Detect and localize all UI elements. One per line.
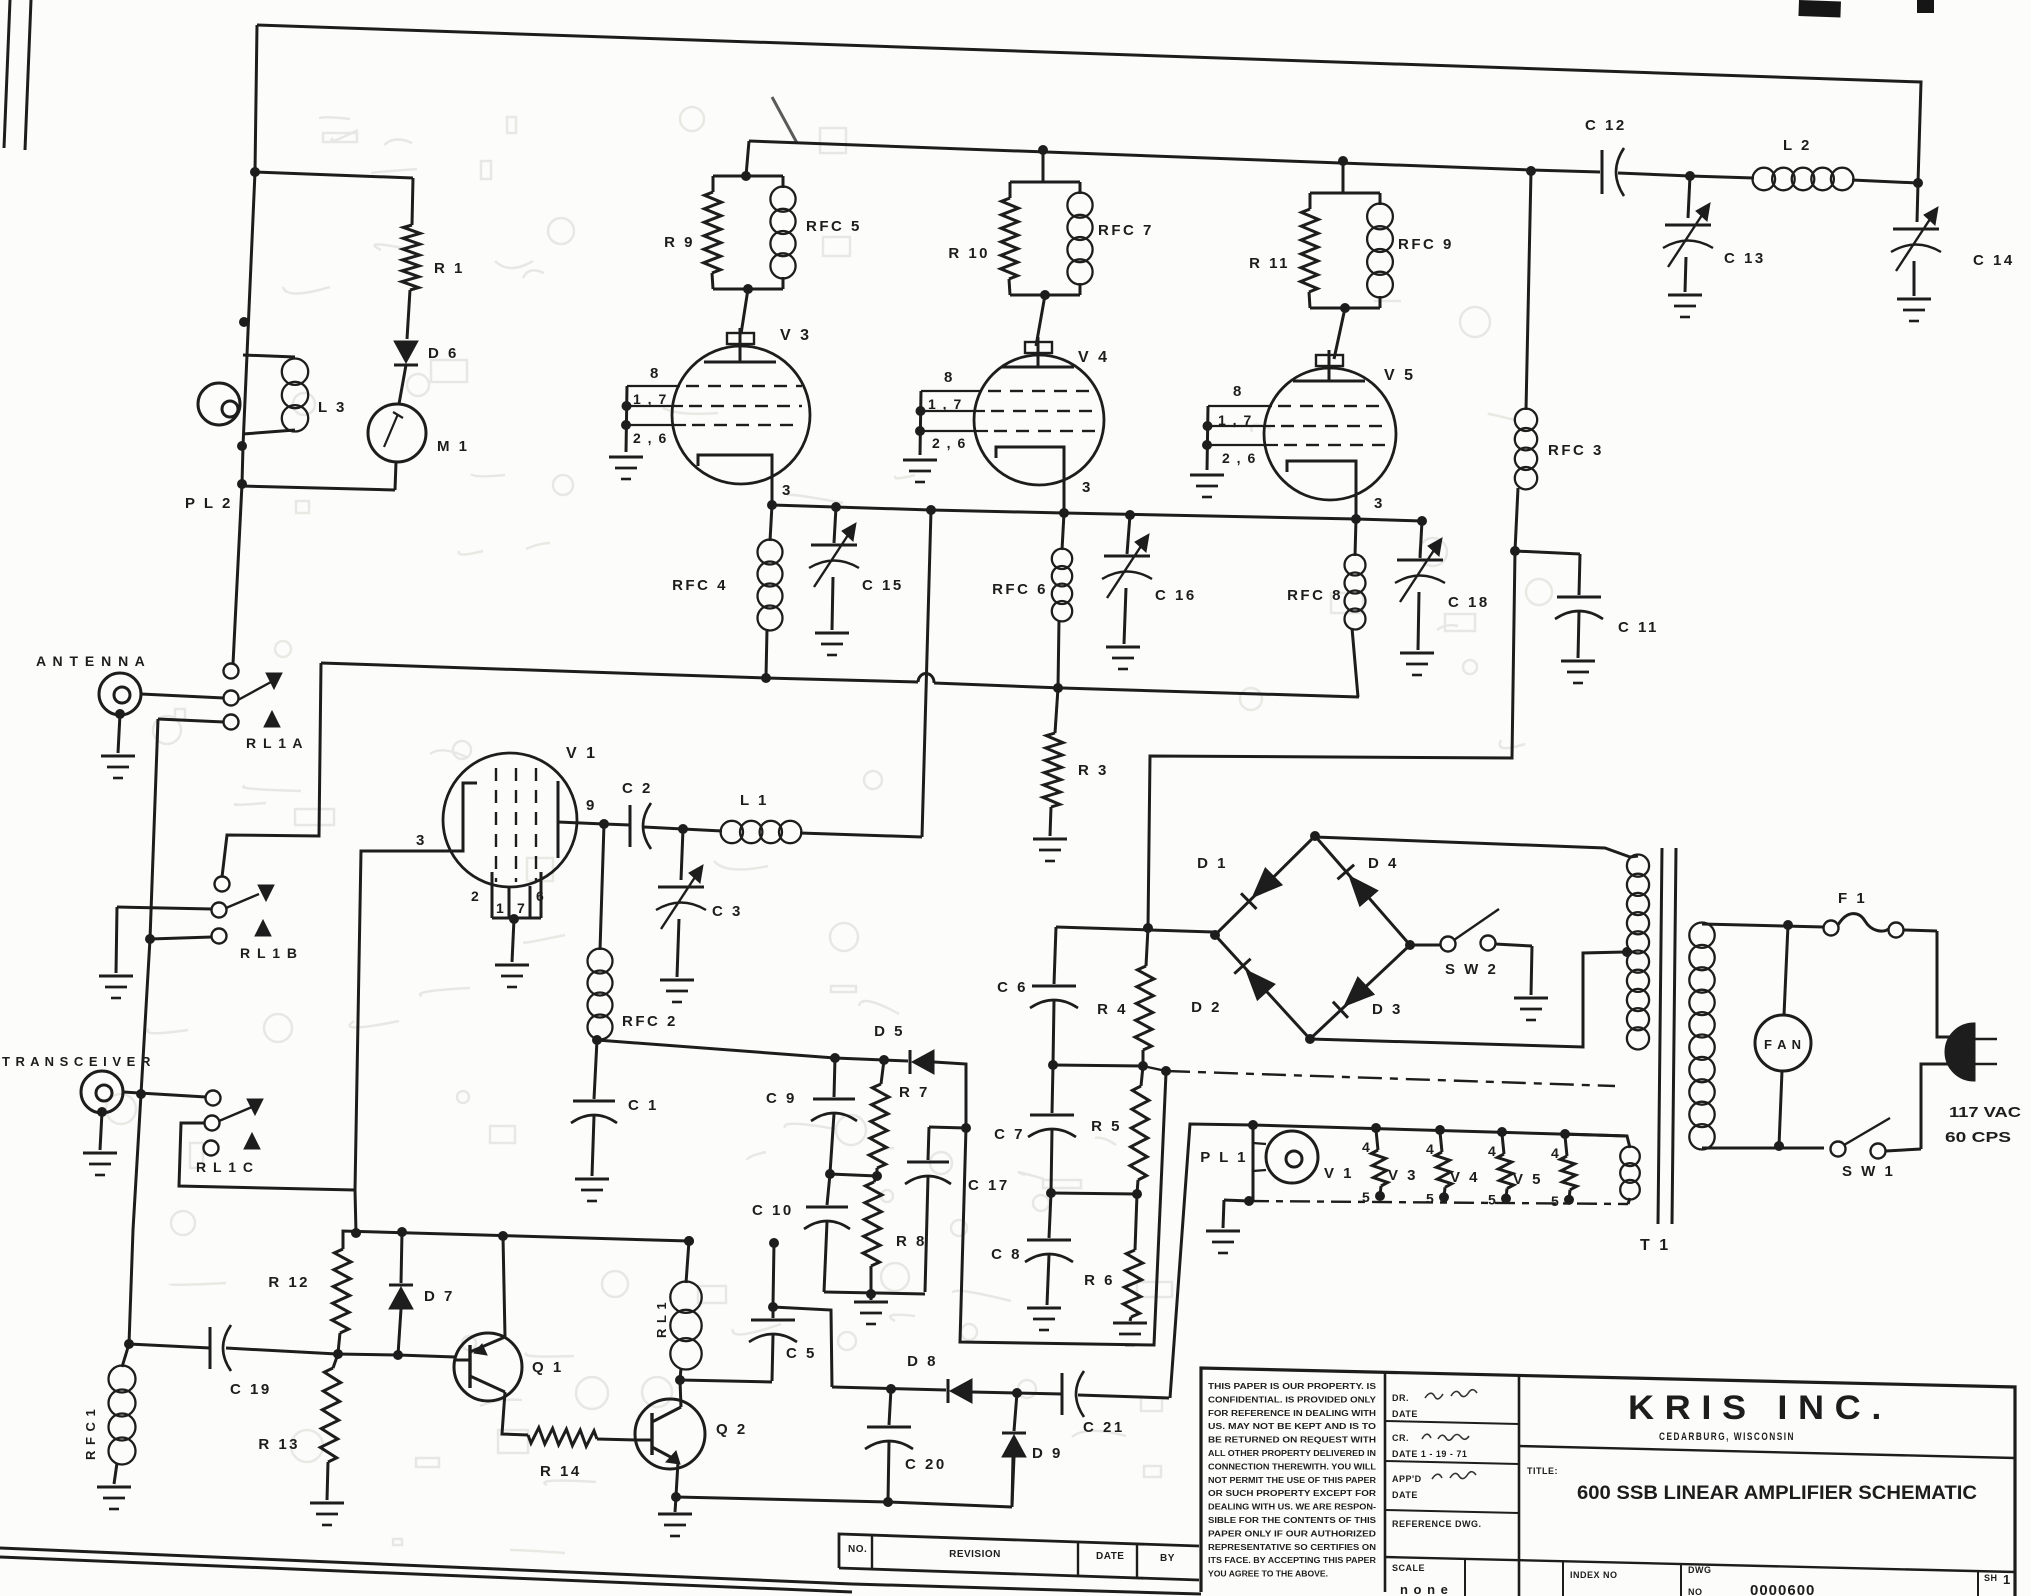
svg-text:3: 3: [782, 482, 793, 499]
table revision strip: [839, 1534, 1199, 1568]
table confidential text box: [1384, 1372, 1387, 1592]
capacitor C15 variable: [834, 507, 836, 543]
resistor R9: [713, 175, 783, 178]
capacitor C7: [1052, 1065, 1053, 1113]
svg-text:DATE 1 - 19 - 71: DATE 1 - 19 - 71: [1392, 1449, 1467, 1459]
svg-text:V 3: V 3: [780, 327, 812, 344]
svg-text:A N T E N N A: A N T E N N A: [36, 653, 146, 669]
resistor R12: [332, 1249, 351, 1333]
svg-text:V 4: V 4: [1450, 1169, 1480, 1186]
wire V4 plate drop: [1038, 145, 1048, 155]
transformer T1 heater winding: [1565, 1134, 1630, 1148]
svg-text:L 1: L 1: [740, 792, 769, 809]
inductor RFC1: [122, 1344, 129, 1367]
svg-text:R 8: R 8: [896, 1233, 927, 1250]
svg-text:RFC 8: RFC 8: [1287, 587, 1343, 604]
wire C9-R7 junction: [830, 1174, 877, 1176]
tube V 4 heater: [1502, 1134, 1504, 1154]
ground V3 grids: [609, 456, 643, 459]
svg-text:CONNECTION THEREWITH. YOU W: CONNECTION THEREWITH. YOU WILL: [1208, 1461, 1376, 1471]
svg-text:C 6: C 6: [997, 979, 1028, 996]
svg-text:DR.: DR.: [1392, 1393, 1409, 1403]
svg-text:US. MAY NOT BE KEPT AND: US. MAY NOT BE KEPT AND IS TO: [1208, 1421, 1376, 1431]
wire V5 cathode: [1287, 461, 1356, 519]
svg-text:D 1: D 1: [1197, 855, 1228, 872]
svg-text:PAPER ONLY IF OUR AUTHORIZ: PAPER ONLY IF OUR AUTHORIZED: [1208, 1528, 1376, 1538]
svg-text:R 13: R 13: [258, 1436, 300, 1453]
capacitor C10: [827, 1174, 830, 1205]
ground SW2: [1514, 997, 1548, 1000]
diode D5: [909, 1050, 912, 1074]
svg-text:3: 3: [1374, 495, 1385, 512]
svg-text:R F C 1: R F C 1: [83, 1408, 98, 1460]
svg-text:6: 6: [536, 888, 546, 904]
svg-text:F A N: F A N: [1764, 1037, 1802, 1052]
svg-text:9: 9: [586, 797, 597, 814]
wire C5 bypass to D8 rail: [773, 1307, 832, 1387]
ground R6: [1113, 1322, 1147, 1325]
svg-text:RFC 2: RFC 2: [622, 1013, 678, 1030]
resistor R3: [1053, 683, 1063, 693]
svg-text:S W 1: S W 1: [1842, 1163, 1895, 1180]
svg-text:5: 5: [1551, 1193, 1561, 1209]
svg-text:APP'D: APP'D: [1392, 1474, 1422, 1484]
connector plug 117VAC: [1946, 1024, 1974, 1080]
capacitor C1: [592, 1035, 602, 1045]
svg-text:V 1: V 1: [1324, 1165, 1354, 1182]
inductor RFC6: [1062, 513, 1064, 550]
wire RFC2 to D5: [597, 1040, 908, 1061]
svg-text:8: 8: [650, 365, 661, 382]
svg-text:C 8: C 8: [991, 1246, 1022, 1263]
ground C11: [1561, 660, 1595, 663]
svg-text:C 1: C 1: [628, 1097, 659, 1114]
wire L1 riser to pin3 bus: [922, 510, 931, 837]
wire RL1B middle to ground: [117, 907, 212, 909]
svg-text:C 10: C 10: [752, 1202, 794, 1219]
inductor L2: [1690, 176, 1754, 178]
meter M1: [368, 404, 426, 462]
wire heater bus: [1170, 1124, 1253, 1398]
wire C20 drop: [889, 1389, 891, 1425]
resistor R13: [333, 1354, 338, 1368]
svg-text:R 1: R 1: [434, 260, 465, 277]
svg-text:8: 8: [1233, 383, 1244, 400]
border left edge lines: [4, 0, 10, 148]
table bottom row: [1385, 1557, 2015, 1572]
tube V 3 heater: [1440, 1132, 1442, 1152]
svg-text:ALL OTHER PROPERTY DELIVERE: ALL OTHER PROPERTY DELIVERED IN: [1208, 1448, 1376, 1458]
connector TRANSCEIVER: [81, 1071, 123, 1113]
svg-text:T 1: T 1: [1640, 1237, 1671, 1254]
tube V1: [443, 753, 577, 887]
wire C6-R4 junction: [1053, 1065, 1143, 1066]
svg-text:V 5: V 5: [1384, 367, 1416, 384]
svg-text:L 2: L 2: [1783, 137, 1812, 154]
scan smudge top right: [1798, 0, 1841, 17]
table title divider: [1519, 1446, 2015, 1458]
fan motor FAN: [1784, 925, 1788, 1015]
svg-text:V 1: V 1: [566, 745, 598, 762]
transformer T1 primary winding: [1689, 923, 1714, 948]
capacitor C17: [929, 1127, 966, 1128]
svg-text:RFC 4: RFC 4: [672, 577, 728, 594]
svg-text:4: 4: [1551, 1145, 1561, 1161]
svg-text:R 6: R 6: [1084, 1272, 1115, 1289]
diode D2: [1246, 970, 1275, 1000]
capacitor C9: [834, 1058, 835, 1097]
svg-text:3: 3: [1082, 479, 1093, 496]
wire V3 cathode: [698, 455, 772, 505]
svg-text:C 16: C 16: [1155, 587, 1197, 604]
ground C8: [1027, 1307, 1061, 1310]
wire emitter rail: [676, 1497, 1012, 1507]
svg-text:NO: NO: [1688, 1587, 1703, 1596]
wire primary top: [1702, 924, 1824, 927]
svg-text:REPRESENTATIVE SO CERTIFIES: REPRESENTATIVE SO CERTIFIES ON: [1208, 1542, 1376, 1552]
svg-text:1: 1: [496, 900, 506, 916]
svg-text:DATE: DATE: [1392, 1490, 1418, 1500]
wire Q1 emitter to R14: [502, 1392, 528, 1435]
svg-text:1: 1: [2003, 1572, 2013, 1587]
tube V 5 heater: [1565, 1136, 1567, 1156]
svg-text:C 17: C 17: [968, 1177, 1010, 1194]
svg-text:R 7: R 7: [899, 1084, 930, 1101]
svg-text:DEALING WITH US. WE ARE R: DEALING WITH US. WE ARE RESPON-: [1208, 1502, 1376, 1512]
wire Q2 collector to RL1: [680, 1380, 681, 1407]
ground C13: [1668, 294, 1702, 297]
wire C19 node to Q1 base: [337, 1354, 455, 1357]
wire left tall vertical: [129, 719, 158, 1344]
wire antenna to RL1A: [141, 694, 224, 698]
wire D8 rail: [832, 1387, 946, 1390]
svg-text:OR SUCH PROPERTY EXCEPT FO: OR SUCH PROPERTY EXCEPT FOR: [1208, 1488, 1377, 1498]
svg-text:S W 2: S W 2: [1445, 961, 1498, 978]
capacitor C8: [1049, 1193, 1051, 1238]
diode D9: [1014, 1393, 1017, 1431]
lamp PL2: [198, 383, 240, 425]
svg-text:60 CPS: 60 CPS: [1945, 1129, 2011, 1146]
svg-text:R L 1 A: R L 1 A: [246, 735, 304, 751]
svg-text:1 , 7: 1 , 7: [928, 396, 963, 412]
svg-text:R 14: R 14: [540, 1463, 582, 1480]
svg-text:RFC 5: RFC 5: [806, 218, 862, 235]
svg-text:R 4: R 4: [1097, 1001, 1128, 1018]
table title block frame: [1201, 1368, 2015, 1596]
inductor RFC5: [782, 176, 785, 188]
ground PL1: [1206, 1230, 1240, 1233]
svg-text:RFC 3: RFC 3: [1548, 442, 1604, 459]
svg-text:L 3: L 3: [318, 399, 347, 416]
wire bridge diamond: [1215, 836, 1410, 1039]
svg-text:Q 2: Q 2: [716, 1421, 748, 1438]
svg-text:C 14: C 14: [1973, 252, 2015, 269]
svg-text:DWG: DWG: [1688, 1565, 1712, 1575]
scan ghost texture: [106, 107, 1552, 1553]
relay coil RL1: [684, 1236, 694, 1246]
wire RL1C box: [179, 1123, 355, 1190]
svg-text:CEDARBURG, WISCONSIN: CEDARBURG, WISCONSIN: [1659, 1431, 1795, 1443]
svg-text:V 3: V 3: [1388, 1167, 1418, 1184]
diode D4: [1349, 876, 1378, 907]
svg-text:YOU AGREE TO THE ABOVE.: YOU AGREE TO THE ABOVE.: [1208, 1569, 1328, 1579]
svg-text:RFC 6: RFC 6: [992, 581, 1048, 598]
inductor L1: [683, 829, 722, 831]
svg-text:D 9: D 9: [1032, 1445, 1063, 1462]
svg-text:D 2: D 2: [1191, 999, 1222, 1016]
svg-text:V 4: V 4: [1078, 349, 1110, 366]
svg-text:F 1: F 1: [1838, 890, 1867, 907]
inductor RFC7: [1079, 182, 1082, 194]
svg-text:C 19: C 19: [230, 1381, 272, 1398]
svg-text:INDEX NO: INDEX NO: [1570, 1570, 1618, 1580]
diode D6: [394, 341, 418, 363]
svg-text:D 4: D 4: [1368, 855, 1399, 872]
ground ANTENNA: [118, 714, 120, 753]
svg-text:2: 2: [471, 888, 481, 904]
svg-text:n o n e: n o n e: [1400, 1582, 1449, 1596]
wire Q2 emitter: [676, 1462, 678, 1496]
svg-text:R 12: R 12: [268, 1274, 310, 1291]
capacitor C16 variable: [1127, 515, 1130, 554]
svg-text:C 21: C 21: [1083, 1419, 1125, 1436]
pencil mark: [772, 97, 797, 143]
wire bridge left node: [1056, 927, 1213, 932]
transistor Q2: [635, 1399, 705, 1469]
border bottom double line: [0, 1548, 852, 1584]
svg-text:THIS PAPER IS OUR PROPERTY: THIS PAPER IS OUR PROPERTY. IS: [1208, 1381, 1376, 1391]
wire left main vertical: [233, 25, 257, 664]
wire dash line to T1: [1143, 1066, 1166, 1071]
wire bias bus riser to RL1B: [222, 663, 321, 877]
capacitor C19: [129, 1344, 210, 1348]
svg-text:4: 4: [1426, 1141, 1436, 1157]
svg-text:RFC 9: RFC 9: [1398, 236, 1454, 253]
wire primary bottom: [1702, 1147, 1824, 1150]
svg-text:KRIS INC.: KRIS INC.: [1628, 1389, 1892, 1427]
node V1 base pins 2,1,7,6: [491, 872, 494, 918]
svg-text:2 , 6: 2 , 6: [1222, 450, 1257, 466]
connector ANTENNA: [99, 673, 141, 715]
svg-text:CONFIDENTIAL. IS PROVIDED O: CONFIDENTIAL. IS PROVIDED ONLY: [1208, 1394, 1376, 1404]
tube V 1 heater: [1376, 1130, 1378, 1150]
ground C15: [815, 632, 849, 635]
ground C18: [1400, 652, 1434, 655]
svg-text:P L 1: P L 1: [1200, 1149, 1248, 1166]
svg-text:C 9: C 9: [766, 1090, 797, 1107]
wire D5 to C17 node: [934, 1062, 1166, 1345]
svg-text:1 , 7: 1 , 7: [633, 391, 668, 407]
svg-text:7: 7: [517, 900, 527, 916]
resistor R10: [1010, 181, 1080, 184]
ground Q2: [675, 1497, 676, 1512]
svg-text:REVISION: REVISION: [949, 1549, 1001, 1560]
tube V4: [974, 355, 1104, 485]
diode D8: [947, 1379, 950, 1403]
svg-text:C 11: C 11: [1618, 619, 1659, 636]
svg-text:R 5: R 5: [1091, 1118, 1122, 1135]
svg-text:2 , 6: 2 , 6: [633, 430, 668, 446]
resistor R1: [412, 178, 413, 225]
svg-text:4: 4: [1362, 1139, 1372, 1155]
ground R3: [1033, 838, 1067, 841]
resistor R14: [528, 1428, 597, 1447]
svg-text:REFERENCE DWG.: REFERENCE DWG.: [1392, 1519, 1482, 1529]
svg-text:NOT PERMIT THE USE OF THI: NOT PERMIT THE USE OF THIS PAPER: [1208, 1475, 1377, 1485]
wire B+ bus to C12: [749, 141, 1531, 170]
wire PL1 ground stub: [1244, 1196, 1254, 1206]
wire plug feed bottom: [1921, 1064, 1950, 1149]
table signature column: [1385, 1421, 1519, 1424]
ground R13: [310, 1502, 344, 1505]
ground V1 pins: [495, 964, 529, 967]
svg-text:5: 5: [1488, 1192, 1498, 1208]
diode D3: [1344, 977, 1374, 1006]
wire V3 plate drop: [746, 141, 749, 176]
svg-text:M 1: M 1: [437, 438, 470, 455]
lamp PL1: [1252, 1125, 1255, 1201]
svg-text:D 3: D 3: [1372, 1001, 1403, 1018]
svg-text:1 , 7: 1 , 7: [1218, 412, 1253, 428]
wire Q bus: [343, 1231, 689, 1249]
node V5 pins 8/1,7/2,6: [1207, 406, 1208, 470]
wire Q1 collector up: [503, 1236, 505, 1337]
resistor R11: [1310, 192, 1380, 195]
svg-text:R L 1 C: R L 1 C: [196, 1159, 254, 1175]
resistor R7: [881, 1060, 884, 1084]
wire C7-R5 junction: [1051, 1193, 1137, 1194]
svg-text:2 , 6: 2 , 6: [932, 435, 967, 451]
svg-text:DATE: DATE: [1392, 1409, 1418, 1419]
svg-text:D 8: D 8: [907, 1353, 938, 1370]
diode D7: [401, 1232, 402, 1283]
svg-text:SH: SH: [1984, 1573, 1998, 1583]
tube V3: [672, 346, 810, 484]
svg-text:NO.: NO.: [848, 1544, 867, 1555]
svg-text:D 7: D 7: [424, 1288, 455, 1305]
wire heater return dash: [1249, 1201, 1628, 1204]
ground R8: [870, 1294, 873, 1300]
wire V4 cathode: [996, 447, 1064, 513]
capacitor C12: [1531, 170, 1600, 172]
wire R1 branch: [255, 172, 413, 178]
capacitor C14 variable: [1913, 178, 1923, 188]
svg-text:D 5: D 5: [874, 1023, 905, 1040]
svg-text:117 VAC: 117 VAC: [1949, 1104, 2021, 1121]
transformer T1 core: [1658, 848, 1662, 1224]
ground C1: [575, 1178, 609, 1181]
resistor R8: [874, 1176, 877, 1182]
capacitor C21: [1061, 1373, 1064, 1415]
inductor RFC4: [770, 505, 772, 541]
switch SW2: [1410, 944, 1441, 947]
wire bridge top to T1: [1315, 837, 1630, 857]
svg-text:SCALE: SCALE: [1392, 1563, 1425, 1573]
svg-text:C 20: C 20: [905, 1456, 947, 1473]
svg-text:0000600: 0000600: [1750, 1582, 1815, 1596]
svg-text:R 10: R 10: [948, 245, 990, 262]
wire bridge bottom to T1 tap: [1310, 952, 1625, 1047]
svg-text:C 5: C 5: [786, 1345, 817, 1362]
relay contacts RL1A: [224, 664, 239, 679]
wire R8 bottom rail: [824, 1292, 925, 1294]
svg-text:SIBLE FOR THE CONTENTS OF: SIBLE FOR THE CONTENTS OF THIS: [1208, 1515, 1376, 1525]
wire pin3 bus: [772, 505, 1422, 521]
svg-text:Q 1: Q 1: [532, 1359, 564, 1376]
svg-text:V 5: V 5: [1513, 1171, 1543, 1188]
tube V5: [1264, 368, 1396, 500]
svg-text:RFC 7: RFC 7: [1098, 222, 1154, 239]
ground C16: [1106, 646, 1140, 649]
ground C3: [660, 979, 694, 982]
wire cathode bias bus: [321, 663, 918, 682]
capacitor C2: [604, 824, 630, 825]
node V4 pins 8/1,7/2,6: [920, 391, 921, 455]
svg-text:DATE: DATE: [1096, 1551, 1124, 1562]
transistor Q1: [454, 1333, 522, 1401]
ground RL1B: [99, 975, 133, 978]
relay contacts RL1B: [215, 877, 230, 892]
capacitor C5: [769, 1238, 779, 1248]
svg-text:8: 8: [944, 369, 955, 386]
svg-text:FOR REFERENCE IN DEALING W: FOR REFERENCE IN DEALING WITH: [1208, 1408, 1376, 1418]
wire RL1B bottom to vertical: [150, 937, 212, 939]
ground TRANSCEIVER: [100, 1112, 102, 1150]
wire V1 pin9 lead: [558, 822, 604, 824]
ground V5 grids: [1190, 474, 1224, 477]
wire B+ to bridge: [1148, 551, 1515, 928]
inductor RFC9: [1379, 193, 1382, 205]
svg-text:P L 2: P L 2: [185, 495, 233, 512]
resistor R5: [1141, 1066, 1143, 1086]
svg-text:4: 4: [1488, 1143, 1498, 1159]
wire V1 pin3 to RL1C/Q-bus: [355, 851, 443, 1233]
wire V5 plate drop: [1338, 156, 1348, 166]
svg-text:TITLE:: TITLE:: [1527, 1466, 1558, 1476]
svg-text:3: 3: [416, 832, 427, 849]
svg-text:600 SSB LINEAR AMPLIFIER SC: 600 SSB LINEAR AMPLIFIER SCHEMATIC: [1577, 1483, 1977, 1504]
svg-text:C 2: C 2: [622, 780, 653, 797]
diode D1: [1252, 868, 1282, 898]
ground V4 grids: [903, 459, 937, 462]
wire transceiver to RL1C: [123, 1092, 206, 1097]
inductor RFC8: [1355, 519, 1356, 556]
resistor R6: [1135, 1194, 1137, 1250]
svg-text:BE RETURNED ON REQUEST WIT: BE RETURNED ON REQUEST WITH: [1208, 1435, 1376, 1445]
capacitor C13 variable: [1685, 171, 1695, 181]
relay contacts RL1C: [206, 1091, 221, 1106]
wire plug feed top: [1937, 931, 1951, 1037]
capacitor C11: [1510, 546, 1520, 556]
capacitor C20: [888, 1442, 889, 1501]
capacitor C3 variable: [678, 824, 688, 834]
svg-text:R 9: R 9: [664, 234, 695, 251]
svg-text:R L 1: R L 1: [654, 1301, 669, 1338]
svg-text:5: 5: [1426, 1190, 1436, 1206]
svg-text:R 3: R 3: [1078, 762, 1109, 779]
transformer T1 HV winding: [1627, 855, 1649, 877]
svg-text:5: 5: [1362, 1189, 1372, 1205]
svg-text:R 11: R 11: [1249, 255, 1290, 272]
svg-text:C 15: C 15: [862, 577, 904, 594]
svg-text:CR.: CR.: [1392, 1433, 1409, 1443]
svg-text:C 13: C 13: [1724, 250, 1766, 267]
svg-text:C 12: C 12: [1585, 117, 1627, 134]
ground RFC1: [97, 1486, 131, 1489]
svg-text:D 6: D 6: [428, 345, 459, 362]
wire top bus: [257, 25, 1921, 183]
svg-text:T R A N S C E I V E R: T R A N S C E I V E R: [2, 1054, 151, 1069]
